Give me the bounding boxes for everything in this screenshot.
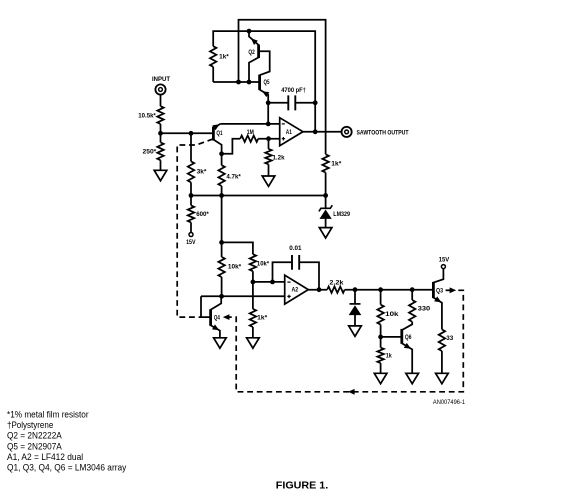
svg-text:250*: 250* <box>143 149 157 156</box>
svg-text:Q1: Q1 <box>216 130 223 137</box>
svg-text:0.01: 0.01 <box>289 245 302 252</box>
svg-text:LM329: LM329 <box>333 211 350 218</box>
svg-text:A1, A2 = LF412 dual: A1, A2 = LF412 dual <box>7 452 83 462</box>
svg-text:330: 330 <box>418 306 431 313</box>
svg-text:Q5 = 2N2907A: Q5 = 2N2907A <box>7 441 62 451</box>
svg-text:Q3: Q3 <box>436 288 443 295</box>
svg-text:2.2k: 2.2k <box>329 280 344 287</box>
svg-text:3k*: 3k* <box>197 168 208 175</box>
svg-text:1k*: 1k* <box>257 314 268 321</box>
svg-text:10k*: 10k* <box>257 261 270 268</box>
svg-text:Q5: Q5 <box>264 79 270 86</box>
svg-text:*1% metal film resistor: *1% metal film resistor <box>7 410 89 420</box>
svg-text:1.2k: 1.2k <box>273 155 286 162</box>
svg-text:10k: 10k <box>385 311 399 318</box>
svg-text:Q4: Q4 <box>214 314 220 321</box>
svg-text:FIGURE 1.: FIGURE 1. <box>276 481 329 492</box>
svg-text:4700 pF†: 4700 pF† <box>281 87 306 94</box>
svg-text:4.7k*: 4.7k* <box>226 174 241 181</box>
svg-text:33: 33 <box>446 335 454 342</box>
svg-text:15V: 15V <box>439 257 450 264</box>
svg-text:600*: 600* <box>196 211 209 218</box>
svg-text:A1: A1 <box>286 129 293 136</box>
svg-text:Q2 = 2N2222A: Q2 = 2N2222A <box>7 431 62 441</box>
svg-text:15V: 15V <box>186 239 196 246</box>
svg-text:AN007496-1: AN007496-1 <box>433 400 466 406</box>
svg-text:INPUT: INPUT <box>152 76 170 83</box>
svg-text:1k*: 1k* <box>219 54 229 61</box>
svg-text:A2: A2 <box>291 286 298 293</box>
svg-text:1M: 1M <box>247 129 254 136</box>
svg-text:1k: 1k <box>386 352 392 359</box>
svg-text:Q6: Q6 <box>405 334 412 341</box>
svg-text:Q2: Q2 <box>248 49 255 56</box>
svg-text:10k*: 10k* <box>228 263 242 270</box>
svg-text:10.5k*: 10.5k* <box>138 113 156 120</box>
svg-text:SAWTOOTH OUTPUT: SAWTOOTH OUTPUT <box>357 129 409 136</box>
svg-text:1k*: 1k* <box>331 161 342 168</box>
svg-text:Q1, Q3, Q4, Q6 = LM3046 array: Q1, Q3, Q4, Q6 = LM3046 array <box>7 463 127 473</box>
svg-text:†Polystyrene: †Polystyrene <box>7 420 53 430</box>
